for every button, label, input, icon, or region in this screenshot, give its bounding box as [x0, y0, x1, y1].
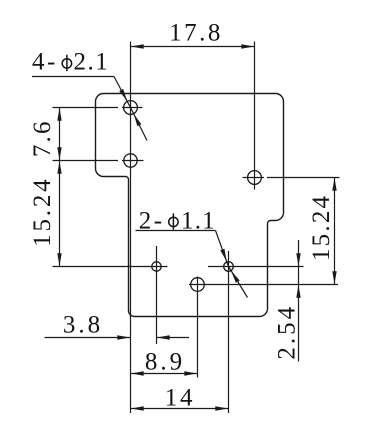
dim line 15.24 right: [334, 178, 336, 285]
arrowhead 15.24 left bottom: [57, 253, 61, 266]
arrowhead 2.54 upper (points down at row 266.5): [296, 253, 300, 266]
arrowhead 17.8 left: [131, 44, 144, 48]
arrowhead 7.6 bottom: [57, 147, 61, 160]
centerline H6 row: [189, 284, 338, 286]
hole H3 right: [248, 171, 262, 185]
svg-text:15.24: 15.24: [308, 194, 335, 261]
leader 2-phi1.1 underline: [136, 230, 216, 232]
arrowhead leader 4-phi2.1 upper: [119, 89, 127, 102]
arrowhead 14 right: [215, 406, 228, 410]
plate outline: [96, 94, 284, 317]
centerline H6 vertical: [197, 277, 199, 378]
centerline H5 vertical: [228, 251, 230, 413]
arrowhead 3.8 left (points right at x=130.5): [117, 335, 130, 339]
dim line 2.54 lower tail: [298, 285, 300, 362]
arrowhead 2.54 lower (points up at row 284.5): [296, 285, 300, 298]
hole H2 top-left lower: [124, 154, 137, 167]
arrowhead 14 left: [131, 406, 144, 410]
arrowhead 17.8 right: [241, 44, 254, 48]
hole H6 bottom large: [191, 278, 205, 292]
svg-text:2.1: 2.1: [74, 49, 110, 76]
centerline vertical through H1 H2 down to bottom dims: [130, 42, 132, 414]
hole H4 bottom small left: [152, 262, 161, 271]
svg-text:2.54: 2.54: [274, 304, 301, 360]
svg-text:15.24: 15.24: [29, 177, 56, 247]
label 4-phi2.1 phi symbol: [62, 55, 71, 71]
centerline H4 vertical: [156, 246, 158, 344]
centerline H1 row: [53, 107, 119, 109]
svg-text:3.8: 3.8: [63, 312, 103, 339]
dim line 3.8 left part with label underline: [45, 337, 131, 339]
arrowhead 3.8 right (points left at x=156.5): [157, 335, 170, 339]
hole H5 bottom small right: [224, 262, 234, 272]
svg-text:2-: 2-: [139, 208, 165, 235]
centerline vertical H3: [254, 42, 256, 190]
arrowhead 7.6 top: [57, 108, 61, 121]
arrowhead 8.9 left: [131, 371, 144, 375]
svg-text:8.9: 8.9: [145, 349, 185, 376]
leader 2-phi1.1 lower segment: [229, 267, 248, 298]
dim line 14: [131, 408, 229, 410]
arrowhead 8.9 right: [184, 371, 197, 375]
hole H1 top-left upper: [124, 101, 138, 115]
label 2-phi1.1 phi symbol: [169, 213, 178, 229]
arrowhead 15.24 left top: [57, 161, 61, 174]
dim line 17.8: [131, 46, 255, 48]
leader 4-phi2.1 upper segment: [114, 77, 131, 108]
arrowhead leader 2-phi1.1 upper: [220, 249, 227, 262]
dim line 2.54 upper tail and span: [298, 240, 300, 285]
arrowhead leader 4-phi2.1 lower: [134, 114, 142, 127]
dim line 3.8 right tail: [157, 337, 190, 339]
centerline small holes row: [53, 266, 168, 268]
centerline H2 row: [53, 160, 119, 162]
arrowhead 15.24 right top: [332, 178, 336, 191]
centerline H3 row: [243, 177, 265, 179]
svg-text:4-: 4-: [32, 49, 58, 76]
dim line 7.6 and 15.24 left: [59, 108, 61, 267]
svg-text:14: 14: [165, 385, 196, 412]
dim line 8.9: [131, 373, 198, 375]
arrowhead leader 2-phi1.1 lower: [231, 271, 240, 283]
leader 4-phi2.1 lower segment: [131, 108, 148, 141]
svg-text:17.8: 17.8: [169, 20, 223, 47]
arrowhead 15.24 right bottom: [332, 271, 336, 284]
svg-text:7.6: 7.6: [29, 119, 56, 157]
leader 4-phi2.1 underline: [32, 76, 114, 78]
leader 2-phi1.1 upper segment: [216, 231, 229, 267]
svg-text:1.1: 1.1: [181, 208, 216, 235]
